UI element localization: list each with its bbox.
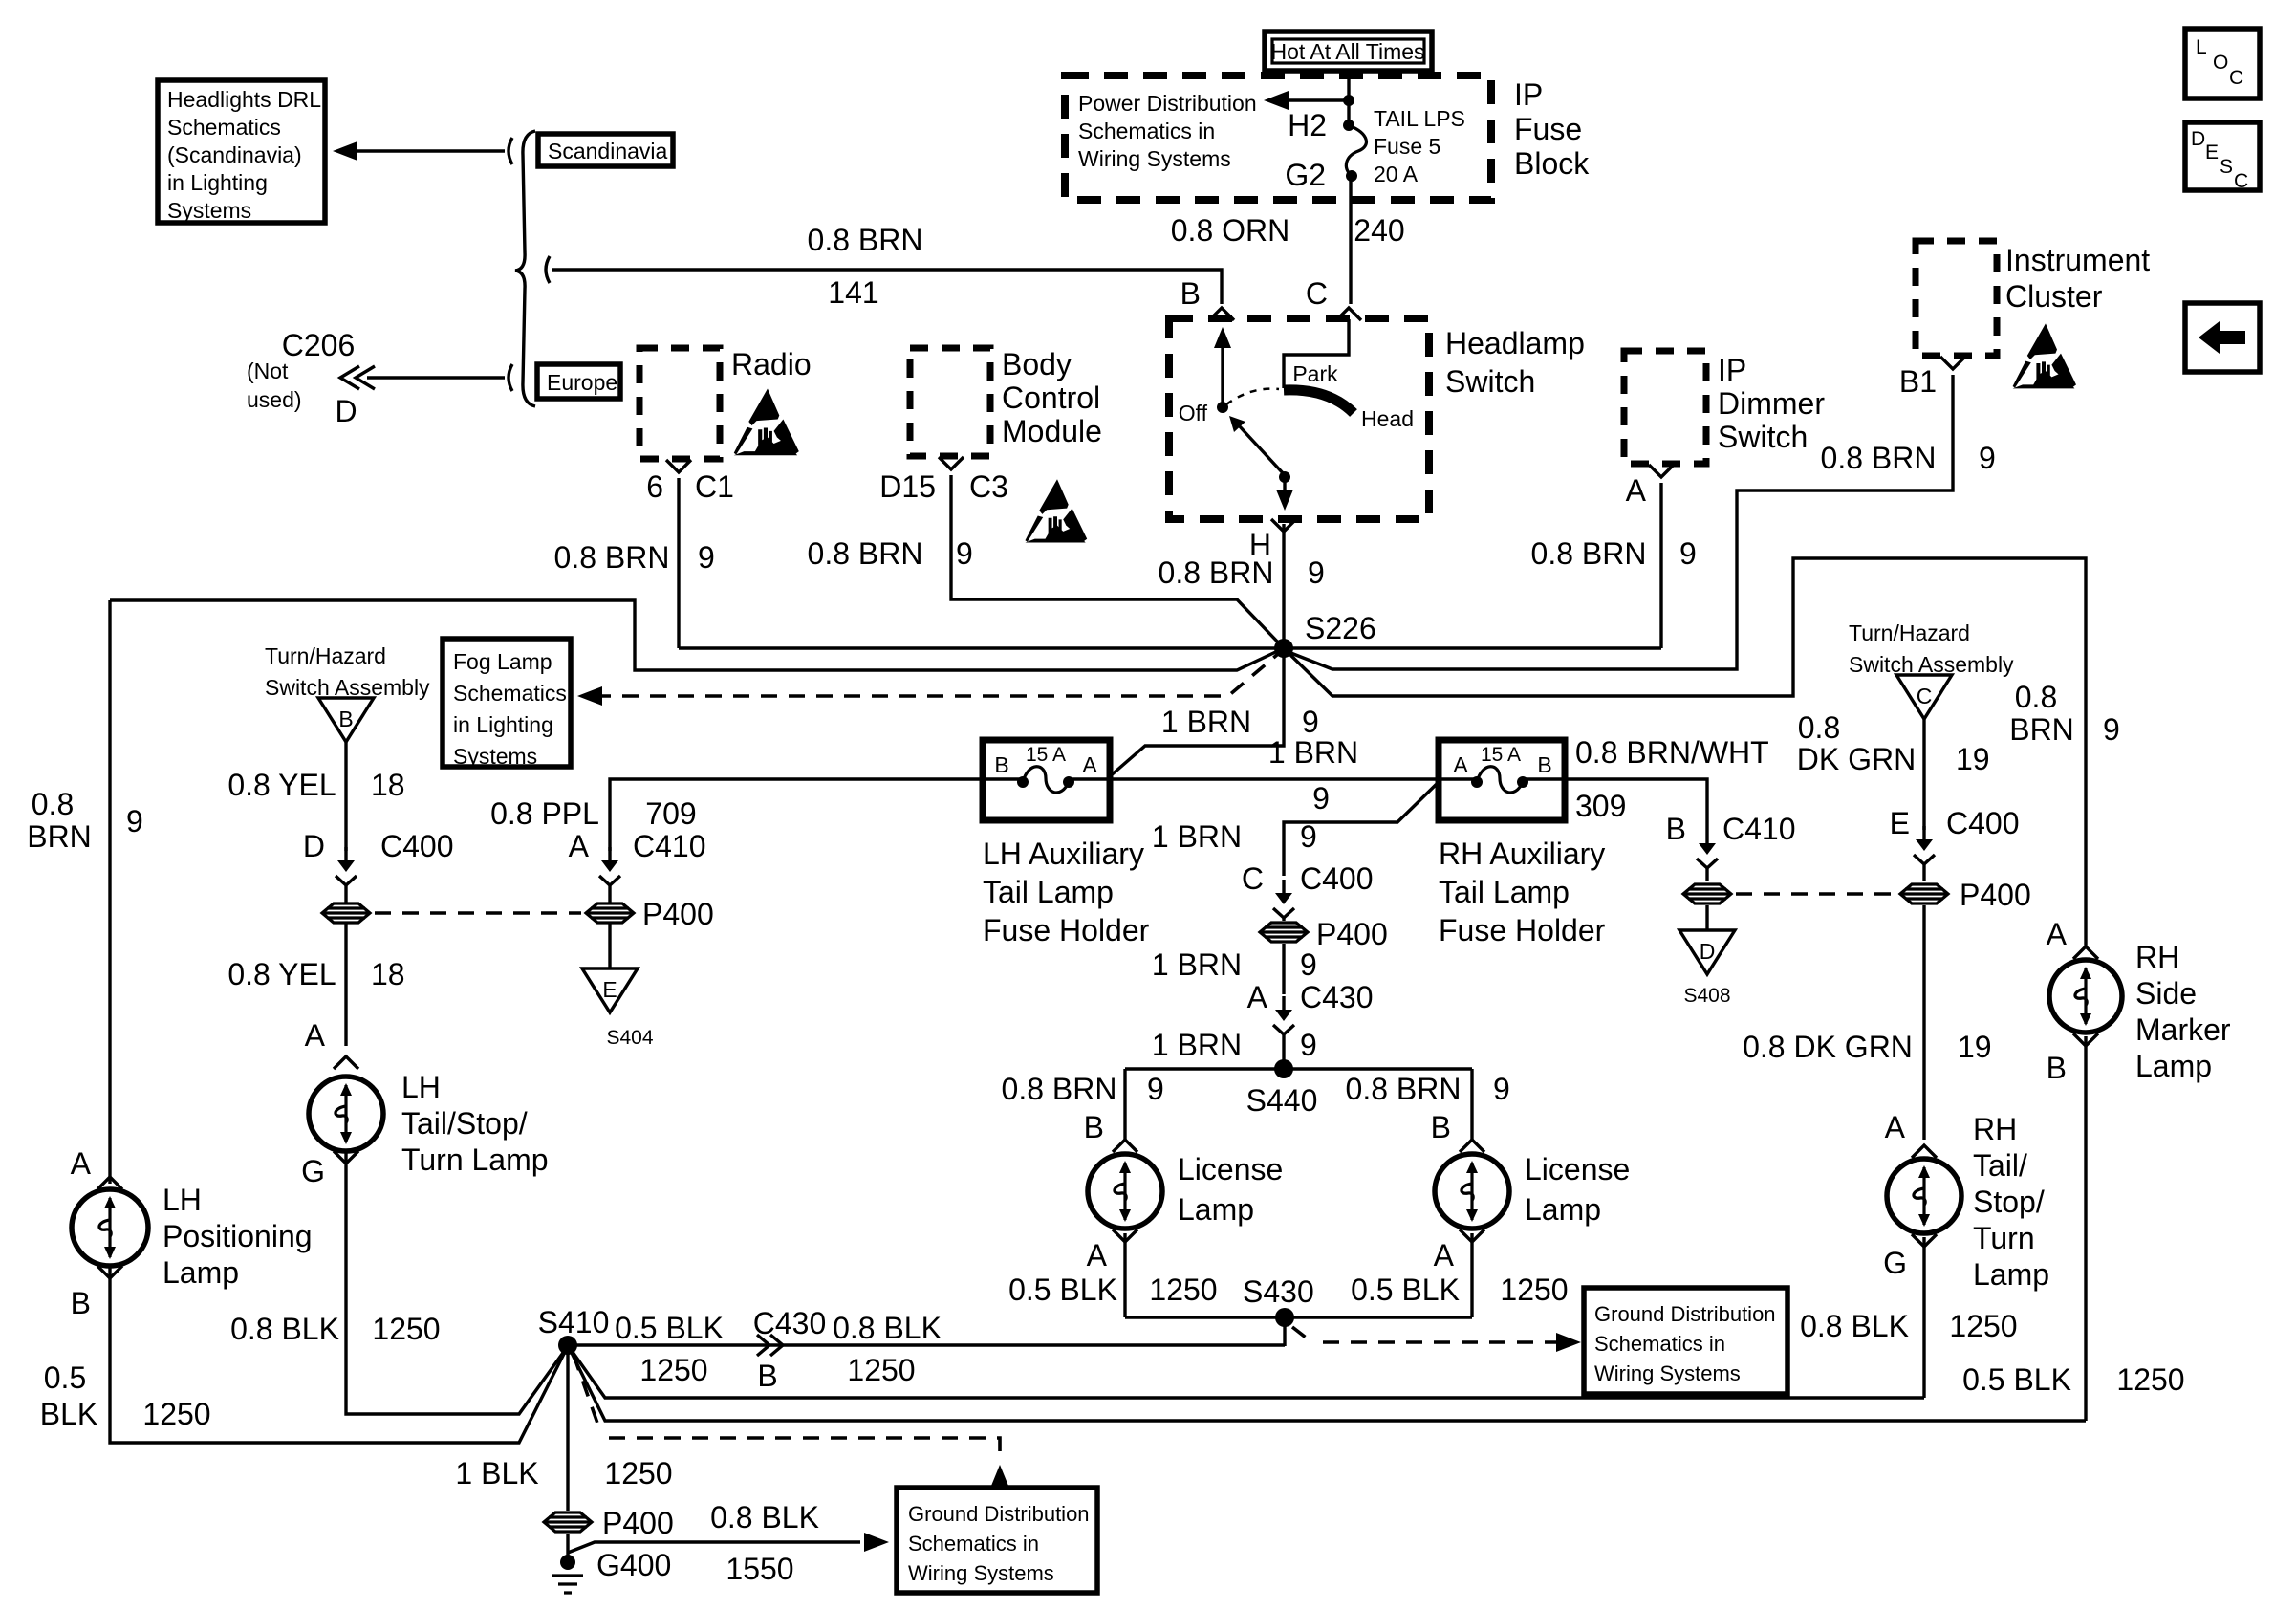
pin B of right license lamp [1460,1140,1484,1152]
wire 0.8 ORN 240 to headlamp switch C [1349,180,1352,304]
svg-text:0.8: 0.8 [1798,710,1840,745]
svg-text:C400: C400 [380,829,454,863]
svg-text:0.8 BRN: 0.8 BRN [808,223,923,257]
pin A of RH side marker lamp [2073,946,2098,959]
svg-text:C430: C430 [1300,980,1374,1014]
svg-text:B: B [338,707,353,731]
wire 0.8 YEL 18 lower [344,924,347,1046]
svg-text:0.8: 0.8 [32,787,74,821]
svg-text:0.8 YEL: 0.8 YEL [227,957,336,991]
svg-text:BLK: BLK [40,1397,97,1431]
wire 0.5 BLK 1250 S410 to RH side marker B [568,1345,2086,1421]
svg-text:Switch: Switch [1718,420,1808,454]
svg-text:D: D [303,829,325,863]
svg-text:0.5 BLK: 0.5 BLK [1008,1273,1117,1307]
svg-text:Systems: Systems [167,198,251,223]
svg-text:A: A [1885,1110,1906,1144]
pin B1 of instrument cluster [1940,357,1965,369]
svg-text:9: 9 [956,536,973,571]
svg-text:1 BRN: 1 BRN [1268,735,1358,770]
pin A of RH tail lamp [1912,1145,1937,1158]
svg-text:1250: 1250 [1500,1273,1568,1307]
svg-text:0.8 BRN: 0.8 BRN [1346,1072,1462,1106]
svg-text:Turn/Hazard: Turn/Hazard [265,643,386,668]
svg-text:B: B [1666,812,1686,846]
svg-text:IP: IP [1514,77,1543,112]
svg-text:0.8 BLK: 0.8 BLK [710,1500,819,1534]
ground reference triangle E S404 [582,968,638,1012]
svg-text:C: C [2234,170,2248,192]
wire 0.8 BRN 9 radio to S226 [677,478,680,648]
wire 0.8 BLK 1250 RH tail to S410 run [1922,1237,1925,1398]
svg-text:9: 9 [2103,712,2120,747]
brace Scandinavia/Europe group [515,131,535,406]
svg-text:Fuse Holder: Fuse Holder [1439,913,1606,947]
svg-text:Tail Lamp: Tail Lamp [1439,875,1570,909]
fuse 15 A LH [1017,776,1029,788]
svg-text:1 BLK: 1 BLK [455,1456,538,1490]
svg-text:E: E [602,977,617,1002]
svg-text:E: E [2205,141,2219,163]
wire 0.5 BLK 1250 S410 to S430 with C430 connector [568,1343,1285,1346]
svg-text:L: L [2196,36,2207,58]
svg-text:D: D [335,394,357,428]
pin B of RH side marker lamp [2073,1033,2098,1046]
svg-text:Side: Side [2135,976,2197,1011]
svg-text:9: 9 [1679,536,1697,571]
svg-text:D: D [2191,128,2205,150]
wire radio to IP dimmer through S226 [679,646,1661,649]
svg-text:RH: RH [1973,1112,2017,1146]
svg-text:9: 9 [1300,819,1317,854]
svg-text:9: 9 [1308,555,1325,590]
svg-text:0.5 BLK: 0.5 BLK [615,1311,724,1345]
svg-text:in Lighting: in Lighting [167,170,268,195]
label box Hot At All Times [1265,32,1432,71]
svg-text:Off: Off [1179,401,1208,425]
svg-text:C: C [1306,276,1328,311]
splice S430 [1275,1308,1294,1327]
pin H of headlamp switch [1271,519,1296,532]
svg-text:A: A [2047,917,2068,951]
svg-text:0.8: 0.8 [2015,680,2057,714]
svg-text:0.5 BLK: 0.5 BLK [1351,1273,1460,1307]
svg-text:Lamp: Lamp [162,1255,239,1290]
wire 0.8 BRN/WHT 309 from RH fuse holder B [1565,779,1707,830]
wire from Hot At All Times into fuse block [1347,70,1350,125]
svg-text:B: B [1537,752,1551,777]
off position dashed arc [1226,389,1279,404]
LH auxiliary tail lamp fuse holder [983,740,1110,820]
label Scandinavia [538,134,673,166]
svg-text:Fuse: Fuse [1514,112,1582,146]
svg-text:Schematics: Schematics [453,681,567,706]
svg-text:Schematics in: Schematics in [908,1532,1039,1556]
svg-text:H2: H2 [1288,108,1327,142]
fuse 15 A RH [1471,776,1483,788]
svg-text:Wiring Systems: Wiring Systems [1078,146,1231,171]
svg-text:used): used) [247,387,302,412]
svg-text:Hot At All Times: Hot At All Times [1270,39,1424,64]
svg-text:LH: LH [162,1183,202,1217]
IP fuse block dashed box [1065,76,1491,200]
svg-text:A: A [1247,980,1268,1014]
svg-text:1250: 1250 [372,1312,440,1346]
svg-text:9: 9 [1302,705,1319,739]
svg-text:1 BRN: 1 BRN [1152,1028,1242,1062]
ESD symbol radio [734,389,799,456]
svg-text:9: 9 [1147,1072,1164,1106]
wire to S404 [608,924,611,969]
ESD symbol body control module [1025,479,1087,542]
wire 0.8 BLK 1250 LH tail to S410 [346,1153,568,1414]
pin B of LH positioning lamp [97,1266,122,1278]
svg-text:1250: 1250 [639,1353,707,1387]
svg-text:E: E [1890,806,1910,840]
svg-text:Tail/: Tail/ [1973,1148,2027,1183]
svg-text:Fuse 5: Fuse 5 [1374,134,1440,159]
splice S410 [558,1336,577,1355]
svg-text:S: S [2220,156,2233,178]
junction dot [1343,95,1354,106]
instrument cluster dashed box [1916,241,1997,356]
svg-text:B: B [757,1359,777,1393]
svg-text:B: B [1084,1110,1104,1144]
arrow legend box [2185,303,2260,372]
pin A of LH positioning lamp [97,1177,122,1189]
svg-text:Control: Control [1002,381,1100,415]
wire 0.8 BRN 141 to headlamp switch B [546,256,550,283]
svg-text:Cluster: Cluster [2005,279,2103,314]
svg-text:S440: S440 [1246,1083,1318,1118]
ground reference triangle D S408 [1679,930,1735,974]
wire 0.5 BLK 1250 side marker to S410 run [2084,1036,2087,1421]
svg-text:LH Auxiliary: LH Auxiliary [983,837,1144,871]
svg-text:G2: G2 [1285,158,1326,192]
svg-text:9: 9 [126,804,143,838]
svg-text:TAIL LPS: TAIL LPS [1374,106,1465,131]
svg-text:Scandinavia: Scandinavia [548,139,668,163]
svg-text:0.8 BRN: 0.8 BRN [1821,441,1937,475]
svg-text:0.8 BLK: 0.8 BLK [1800,1309,1909,1343]
svg-text:240: 240 [1354,213,1404,248]
LH positioning lamp [72,1189,148,1266]
svg-text:1250: 1250 [847,1353,915,1387]
body control module dashed box [910,348,990,456]
svg-text:S408: S408 [1683,985,1730,1007]
svg-text:0.8 BLK: 0.8 BLK [230,1312,339,1346]
svg-text:Lamp: Lamp [1178,1192,1254,1227]
svg-text:Fuse Holder: Fuse Holder [983,913,1150,947]
svg-text:B: B [2047,1051,2067,1085]
svg-text:0.8 BRN/WHT: 0.8 BRN/WHT [1575,735,1769,770]
wire S440 to license lamps [1125,1067,1472,1070]
svg-text:P400: P400 [602,1506,674,1540]
svg-text:1550: 1550 [726,1552,793,1586]
svg-text:9: 9 [1300,1028,1317,1062]
svg-text:709: 709 [645,796,696,831]
off contact dot [1217,402,1228,413]
svg-text:License: License [1178,1152,1283,1186]
DESC legend box [2185,122,2260,190]
svg-text:0.8 BRN: 0.8 BRN [1002,1072,1117,1106]
bulkhead P400 right pair [1683,884,1731,903]
svg-text:0.8 PPL: 0.8 PPL [490,796,599,831]
svg-text:C1: C1 [695,469,734,504]
svg-text:18: 18 [371,957,405,991]
svg-text:O: O [2213,52,2228,74]
left vertical wire [108,600,111,1184]
svg-text:A: A [1626,473,1647,508]
wire 0.8 BRN 9 instrument cluster to S226 [1289,375,1953,669]
svg-text:B: B [994,752,1008,777]
svg-text:1250: 1250 [1949,1309,2017,1343]
arrow to Headlights DRL box [356,149,505,152]
svg-text:DK GRN: DK GRN [1797,742,1916,776]
svg-text:C400: C400 [1300,861,1374,896]
reference box Fog Lamp Schematics [443,639,571,767]
svg-text:A: A [1434,1238,1455,1273]
wire 0.5 BLK 1250 license lamps to S430 [1123,1233,1126,1317]
svg-text:License: License [1525,1152,1630,1186]
svg-text:C3: C3 [969,469,1008,504]
svg-text:Headlights DRL: Headlights DRL [167,87,321,112]
RH auxiliary tail lamp fuse holder [1439,740,1565,820]
fog lamp dashed reference wire [595,654,1278,696]
splice S226 [1274,639,1293,658]
svg-text:141: 141 [828,275,878,310]
svg-text:0.8 DK GRN: 0.8 DK GRN [1743,1030,1913,1064]
wire fuse row LH to RH [985,777,1023,780]
wire 0.8 DK GRN 19 lower [1922,905,1925,1140]
dashed reference S410 to ground distribution bottom [574,1355,1000,1457]
svg-text:D: D [1700,939,1716,964]
svg-text:9: 9 [1300,947,1317,982]
svg-text:Ground Distribution: Ground Distribution [908,1502,1090,1526]
reference box Headlights DRL Schematics [158,80,325,223]
wire 0.8 BRN 9 left run to S226 [110,600,1284,670]
svg-text:A: A [71,1146,92,1181]
svg-text:1 BRN: 1 BRN [1161,705,1251,739]
bulkhead P400 center [1260,923,1308,942]
stub S430 to ground run [1283,1317,1286,1346]
wire 1 BRN 9 to S440 [1282,1033,1285,1069]
svg-text:Switch: Switch [1445,364,1535,399]
svg-text:BRN: BRN [27,819,92,854]
svg-text:Turn Lamp: Turn Lamp [401,1142,549,1177]
wire 0.8 BRN 9 dimmer to S226 [1659,483,1662,648]
svg-text:Schematics: Schematics [167,115,281,140]
radio dashed box [639,348,720,459]
pin B of headlamp switch [1209,308,1234,320]
svg-text:RH: RH [2135,940,2179,974]
svg-text:Marker: Marker [2135,1012,2231,1047]
headlamp switch dashed box [1169,318,1429,519]
svg-text:0.5: 0.5 [44,1360,86,1395]
ground G400 [560,1555,575,1570]
svg-text:Switch Assembly: Switch Assembly [265,675,430,700]
triangle connector B turn/hazard [318,698,374,742]
svg-text:1250: 1250 [142,1397,210,1431]
svg-text:S404: S404 [606,1027,653,1049]
svg-text:0.5 BLK: 0.5 BLK [1962,1362,2071,1397]
wire to S408 [1705,905,1708,931]
svg-text:P400: P400 [1316,917,1388,951]
svg-text:S430: S430 [1243,1274,1314,1309]
svg-text:C206: C206 [282,328,356,362]
svg-text:Schematics in: Schematics in [1078,119,1215,143]
label Europe [537,364,620,399]
svg-text:20 A: 20 A [1374,162,1419,186]
svg-text:A: A [305,1018,326,1053]
svg-text:in Lighting: in Lighting [453,712,553,737]
pin D15 C3 of body control module [939,457,964,469]
svg-text:1250: 1250 [2116,1362,2184,1397]
svg-text:A: A [1082,752,1097,777]
pin G of RH tail lamp [1912,1234,1937,1247]
svg-text:Lamp: Lamp [1525,1192,1601,1227]
svg-text:309: 309 [1575,789,1626,823]
svg-text:A: A [1453,752,1468,777]
bulkhead P400 bottom [544,1512,592,1532]
svg-text:P400: P400 [1960,878,2031,912]
svg-text:S226: S226 [1305,611,1376,645]
svg-text:0.8 BRN: 0.8 BRN [554,540,670,575]
svg-text:C: C [2229,67,2243,89]
svg-text:Turn/Hazard: Turn/Hazard [1849,620,1970,645]
svg-text:Schematics in: Schematics in [1594,1332,1725,1356]
svg-text:9: 9 [1979,441,1996,475]
switch rotor arc Park to Head [1284,390,1354,413]
svg-text:Ground Distribution: Ground Distribution [1594,1302,1776,1326]
triangle connector C turn/hazard [1896,675,1952,719]
svg-text:0.8 BRN: 0.8 BRN [808,536,923,571]
wire 1 BRN 9 RH fuse holder A to C400 [1284,782,1439,876]
splice S440 [1274,1059,1293,1078]
svg-text:C430: C430 [753,1306,827,1340]
left license lamp [1088,1154,1162,1229]
bulkhead P400 left pair [322,903,370,923]
svg-text:Radio: Radio [731,347,812,381]
svg-text:9: 9 [698,540,715,575]
svg-text:1 BRN: 1 BRN [1152,947,1242,982]
wire 0.8 BRN 9 S226 to RH side marker [1289,558,2086,946]
pin 6 C1 of radio [666,460,691,472]
svg-text:C: C [1242,861,1264,896]
svg-text:Module: Module [1002,414,1102,448]
svg-text:0.8 YEL: 0.8 YEL [227,768,336,802]
svg-text:19: 19 [1956,742,1990,776]
svg-text:B: B [1180,276,1201,311]
svg-text:G: G [301,1154,325,1188]
wire 0.8 BRN 9 from H to S226 [1282,524,1285,642]
svg-text:15 A: 15 A [1026,744,1066,766]
wire 0.8 PPL 709 from LH fuse holder B [610,779,985,851]
wiper output arrow to H [1283,477,1286,497]
svg-text:Fog Lamp: Fog Lamp [453,649,552,674]
svg-text:Dimmer: Dimmer [1718,386,1825,421]
wire 0.5 BLK 1250 positioning to S410 [110,1268,568,1443]
wire 0.8 YEL 18 upper [344,742,347,851]
svg-text:(Not: (Not [247,359,289,383]
svg-text:C: C [1917,684,1933,708]
svg-text:1 BRN: 1 BRN [1152,819,1242,854]
switch wiper arm [1238,424,1285,475]
svg-text:Stop/: Stop/ [1973,1185,2045,1219]
IP dimmer switch dashed box [1624,351,1706,464]
pin C of headlamp switch [1336,308,1361,320]
svg-text:Body: Body [1002,347,1072,381]
svg-text:LH: LH [401,1070,441,1104]
RH tail/stop/turn lamp [1887,1159,1961,1233]
svg-text:S410: S410 [538,1305,610,1339]
pin A of IP dimmer switch [1649,465,1674,477]
svg-text:18: 18 [371,768,405,802]
svg-text:Switch Assembly: Switch Assembly [1849,652,2014,677]
svg-text:Europe: Europe [547,370,617,395]
svg-text:0.8 BRN: 0.8 BRN [1159,555,1274,590]
svg-text:Tail/Stop/: Tail/Stop/ [401,1106,528,1141]
svg-text:IP: IP [1718,353,1746,387]
svg-text:Instrument: Instrument [2005,243,2150,277]
svg-text:Lamp: Lamp [1973,1257,2049,1292]
svg-text:0.8 BRN: 0.8 BRN [1531,536,1647,571]
svg-text:0.8 ORN: 0.8 ORN [1171,213,1289,248]
svg-text:C410: C410 [633,829,706,863]
RH side marker lamp [2049,960,2122,1033]
svg-text:BRN: BRN [2009,712,2074,747]
svg-text:B1: B1 [1899,364,1937,399]
svg-text:Wiring Systems: Wiring Systems [908,1561,1054,1585]
wire 0.8 BRN 9 BCM to S226 [951,475,1284,648]
wire to G400 [566,1534,569,1556]
pin A of LH tail lamp [334,1056,358,1069]
svg-text:Lamp: Lamp [2135,1049,2212,1083]
svg-text:Headlamp: Headlamp [1445,326,1585,360]
wire 0.8 BLK 1250 S410 to RH tail lamp G [568,1345,1924,1398]
right license lamp [1435,1154,1509,1229]
svg-text:G: G [1883,1246,1907,1280]
LH tail/stop/turn lamp [309,1077,383,1151]
svg-text:P400: P400 [642,897,714,931]
svg-text:Power Distribution: Power Distribution [1078,91,1257,116]
wire 0.8 BLK 1550 to ground distribution [568,1542,860,1553]
wire 1 BRN 9 below P400 [1282,944,1285,994]
svg-text:9: 9 [1312,781,1330,816]
svg-text:15 A: 15 A [1481,744,1521,766]
svg-text:B: B [1431,1110,1451,1144]
wire 1 BRN 9 S226 to LH fuse holder [1109,648,1284,777]
ESD symbol instrument cluster [2013,323,2076,388]
svg-text:Wiring Systems: Wiring Systems [1594,1361,1741,1385]
arrow to power distribution schematics [1289,98,1349,101]
svg-text:C400: C400 [1946,806,2020,840]
pin G of LH tail lamp [334,1151,358,1164]
pin B of left license lamp [1113,1140,1137,1152]
svg-text:19: 19 [1958,1030,1992,1064]
wire 0.8 DK GRN 19 upper [1922,719,1925,830]
svg-text:Park: Park [1292,361,1338,386]
svg-text:Block: Block [1514,146,1590,181]
svg-text:Head: Head [1361,406,1414,431]
svg-text:B: B [71,1286,91,1320]
connector C206 D not used [367,376,505,379]
svg-text:C410: C410 [1722,812,1796,846]
svg-text:Positioning: Positioning [162,1219,313,1253]
switch contact B arrow [1221,340,1224,407]
svg-text:1250: 1250 [604,1456,672,1490]
reference box Ground Distribution right [1584,1288,1787,1394]
